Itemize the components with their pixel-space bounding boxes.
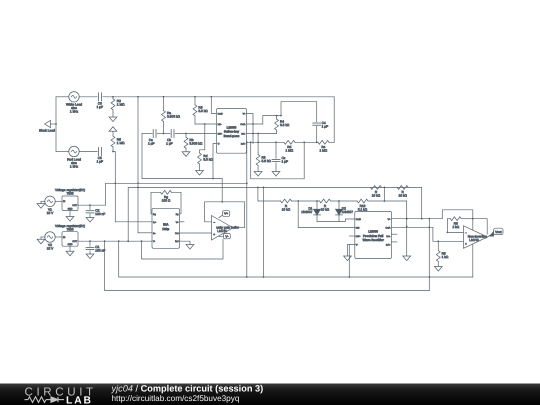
- junction riser on bus A end: [246, 182, 248, 184]
- wire row2 right end drop to ground: [406, 201, 408, 256]
- wire top bus y=96.8 from C6 to far right corner: [103, 96, 334, 98]
- svg-text:7805: 7805: [66, 227, 73, 231]
- svg-text:GND: GND: [68, 243, 73, 246]
- svg-text:1 MΩ: 1 MΩ: [319, 149, 327, 153]
- op-amp U6 LM358 Precision Full Wave Rectifier box: [355, 211, 392, 258]
- svg-text:10 kΩ: 10 kΩ: [372, 194, 381, 198]
- op-amp U2 INA 128p instrumentation amplifier box: [152, 208, 180, 248]
- wire white lead to C6: [56, 96, 69, 98]
- svg-text:100 nF: 100 nF: [95, 249, 105, 253]
- op-amp U7 Non-inverting LM741: [464, 226, 488, 249]
- wire buffer feedback loop: [205, 202, 245, 228]
- junction right column crossings: [406, 218, 408, 220]
- junction D1 tap: [316, 200, 318, 202]
- node Vout flag: [490, 228, 503, 236]
- junction V+ column crossings: [252, 123, 254, 125]
- svg-text:OUT: OUT: [72, 204, 77, 207]
- svg-text:2 kΩ: 2 kΩ: [452, 225, 459, 229]
- svg-text:InB-: InB-: [356, 227, 360, 230]
- svg-text:Vout: Vout: [495, 230, 501, 234]
- wire rectifier right pin3/pin4 stubs: [392, 233, 398, 235]
- svg-text:LM741: LM741: [217, 229, 227, 233]
- svg-text:128p: 128p: [162, 227, 169, 231]
- svg-text:1 kHz: 1 kHz: [70, 110, 79, 114]
- ground below R2: [109, 112, 117, 121]
- wire between caps: [157, 133, 170, 135]
- capacitor C2 100 nF: [86, 205, 105, 217]
- wire output to Vout flag: [488, 235, 494, 237]
- svg-text:100 Ω: 100 Ω: [162, 199, 171, 203]
- diode D1 1N4007: [301, 201, 320, 221]
- resistor Rc 1 MOhm (feedback): [318, 140, 329, 152]
- wire diode cathode loop to pin OutB: [317, 219, 355, 221]
- node Black Lead flag: [39, 120, 57, 132]
- wire feedback upper loop: [442, 210, 473, 219]
- wire rectifier V- drop to bus: [348, 245, 350, 278]
- resistor R6 2 kOhm feedback: [447, 217, 472, 229]
- junction OutA row crossings: [406, 218, 408, 220]
- wire bottom bus junction dots: [263, 276, 265, 278]
- ground left of V1: [37, 201, 45, 208]
- resistor R8 1 MOhm: [111, 136, 125, 152]
- svg-text:V+: V+: [224, 212, 228, 216]
- wire rectifier input row2 riser from bus C: [257, 187, 259, 201]
- wire left vertical joining sources: [55, 97, 57, 152]
- capacitor C1 100 nF: [86, 241, 105, 254]
- junction R9 tap on InA- row: [257, 133, 259, 135]
- svg-text:INA: INA: [163, 222, 169, 226]
- wire left pin V- to ground: [348, 245, 355, 257]
- svg-text:1 MΩ: 1 MΩ: [117, 103, 125, 107]
- diode D2 1N4007: [336, 201, 354, 221]
- svg-text:1 MΩ: 1 MΩ: [285, 149, 293, 153]
- svg-text:OutB: OutB: [218, 113, 224, 116]
- wire +5V(1) riser to bus A: [105, 183, 107, 205]
- svg-text:InA-: InA-: [241, 133, 245, 136]
- wire V- drop to outer bottom bus: [105, 241, 430, 290]
- voltage source V2 15 V: [45, 232, 55, 251]
- svg-text:V-: V-: [153, 240, 155, 243]
- svg-text:V-: V-: [218, 143, 220, 146]
- junction row2 tap to pin: [297, 200, 299, 202]
- ground below R5: [434, 267, 442, 272]
- junction Rb tap: [185, 133, 187, 135]
- svg-text:InA+: InA+: [386, 244, 391, 247]
- junction C4 bottom on row: [316, 141, 318, 143]
- svg-text:10 kΩ: 10 kΩ: [282, 207, 291, 211]
- ground below U4: [66, 246, 74, 256]
- svg-text:1 µF: 1 µF: [148, 141, 154, 145]
- ground left of V2: [37, 237, 45, 244]
- wire INA Out to buffer + input: [180, 232, 212, 234]
- flag V- on buffer bottom: [219, 233, 230, 238]
- source White Lead sine 1 kHz: [66, 92, 82, 114]
- resistor R4 3.3 kOhm: [275, 116, 290, 134]
- svg-text:InA+: InA+: [241, 143, 246, 146]
- resistor Rb 3.903 kOhm: [184, 134, 203, 152]
- capacitor Cb 1 uF: [166, 130, 174, 146]
- svg-text:1 MΩ: 1 MΩ: [117, 141, 125, 145]
- svg-text:3.903 kΩ: 3.903 kΩ: [167, 115, 180, 119]
- wire Ref pin to ground: [180, 241, 191, 244]
- wire output drop from OutA row: [473, 219, 487, 235]
- junction drop column crossings: [428, 226, 430, 228]
- svg-text:OutA: OutA: [385, 227, 391, 230]
- ground below Rb: [182, 152, 190, 157]
- wire band-pass input rail into caps: [142, 133, 152, 135]
- wire U4 OUT rail / V- row: [78, 240, 152, 242]
- ground rectifier left: [344, 256, 352, 261]
- svg-text:InA-: InA-: [386, 235, 390, 238]
- junction hanging-U left: [250, 141, 252, 143]
- wire inner loop to C4: [281, 102, 317, 122]
- wire R3 to pin InB-: [195, 123, 217, 125]
- voltage regulator U4 7805: [55, 224, 85, 246]
- wire red-lead signal drop to INA In+: [113, 152, 115, 222]
- wire InA+ / feedback row y=142.3: [247, 141, 335, 143]
- junction Rd tap on InB- row: [204, 123, 206, 125]
- svg-text:LM358: LM358: [368, 229, 378, 233]
- svg-text:−: −: [465, 231, 467, 235]
- svg-text:Black Lead: Black Lead: [39, 129, 55, 133]
- capacitor C6 1 uF: [97, 93, 103, 109]
- resistor R9 5.6 kOhm: [256, 134, 271, 172]
- resistor Rg 100 Ohm gain loop: [151, 190, 181, 213]
- svg-text:+: +: [465, 242, 467, 246]
- svg-text:InB-: InB-: [218, 123, 222, 126]
- junction V- row taps: [104, 240, 106, 242]
- svg-text:5.6 kΩ: 5.6 kΩ: [203, 158, 213, 162]
- wire band-pass V- pin drop to rail: [213, 144, 217, 179]
- svg-text:1N4007: 1N4007: [301, 210, 312, 214]
- svg-text:3.3 kΩ: 3.3 kΩ: [198, 109, 208, 113]
- svg-text:V-: V-: [225, 234, 228, 238]
- junction hanging-U right: [303, 141, 305, 143]
- wire bus A (+5V upper): [106, 182, 247, 184]
- flag V+ on buffer top: [219, 211, 230, 218]
- wire right drop column x=429.3: [428, 219, 430, 291]
- junction R9 column on row: [257, 141, 259, 143]
- resistor R13 5.1 kOhm: [357, 199, 368, 211]
- ground below Rd: [196, 171, 204, 176]
- wire drop bus C to lower bus at x=263.5: [263, 187, 265, 277]
- wire - input row from R6 left node: [447, 219, 463, 233]
- svg-text:OutB: OutB: [356, 218, 362, 221]
- svg-text:LAB: LAB: [66, 395, 93, 405]
- svg-text:Band-pass: Band-pass: [224, 134, 240, 138]
- svg-text:1 µF: 1 µF: [97, 160, 103, 164]
- svg-text:InB+: InB+: [356, 235, 361, 238]
- svg-text:Wave Rectifier: Wave Rectifier: [363, 238, 385, 242]
- svg-text:5.6 kΩ: 5.6 kΩ: [262, 159, 272, 163]
- wire link row1-row2: [383, 187, 385, 201]
- svg-text:−: −: [213, 220, 215, 224]
- svg-text:GND: GND: [68, 207, 73, 210]
- ground below C2: [86, 218, 94, 223]
- wire outer loop right vertical: [333, 97, 335, 143]
- svg-text:1N4007: 1N4007: [342, 210, 353, 214]
- wire V1 to regulator U3: [55, 200, 62, 202]
- svg-text:OutA: OutA: [240, 123, 246, 126]
- junction top bus / white drop: [137, 96, 139, 98]
- junction bus C crossings: [127, 240, 129, 242]
- svg-text:http://circuitlab.com/cs2f5buv: http://circuitlab.com/cs2f5buve3pyq: [112, 394, 240, 403]
- wire OutA pin jog to R4 top rail: [247, 116, 282, 124]
- junction buffer output tap from band-pass input riser: [221, 201, 223, 203]
- svg-text:1 µF: 1 µF: [322, 125, 328, 129]
- svg-text:OUT: OUT: [72, 240, 77, 243]
- svg-text:1 µF: 1 µF: [97, 105, 103, 109]
- wire V+ stub: [180, 221, 185, 223]
- ground below R9: [254, 172, 262, 177]
- junction R4 top: [276, 115, 278, 117]
- resistor R5 1 kOhm: [436, 240, 448, 266]
- source Red Lead sine 1 kHz: [67, 146, 81, 168]
- wire In- row into INA: [138, 232, 152, 234]
- wire top bus into OutB pin: [211, 97, 216, 114]
- ground rectifier right: [403, 256, 411, 261]
- ground below C1: [86, 254, 94, 259]
- resistor R3 3.3 kOhm: [193, 96, 208, 124]
- svg-text:5.1 kΩ: 5.1 kΩ: [358, 207, 368, 211]
- junction C1 tap: [89, 240, 91, 242]
- wire U3 OUT rail: [78, 204, 106, 206]
- svg-text:Precision Full: Precision Full: [363, 234, 383, 238]
- svg-text:1 µF: 1 µF: [166, 141, 172, 145]
- resistor R 10 kOhm (row2 mid): [320, 199, 331, 211]
- svg-text:7805: 7805: [66, 192, 73, 196]
- resistor Rd 5.6 kOhm: [198, 124, 214, 171]
- svg-text:1 kΩ: 1 kΩ: [442, 255, 449, 259]
- resistor Ra 3.903 kOhm: [162, 96, 181, 135]
- wire row2 tap down to pin InB-: [298, 201, 355, 228]
- wire In+ row into INA: [115, 221, 152, 223]
- capacitor C4 1 uF: [313, 121, 328, 142]
- wire red lead to C5: [56, 151, 69, 153]
- wire InA- pin row to R4 bottom: [247, 133, 277, 135]
- wire V+ pin stub and drop: [247, 114, 254, 144]
- wire rectifier OutA row to final amp: [392, 218, 443, 220]
- svg-text:V-: V-: [356, 244, 358, 247]
- svg-text:3.3 kΩ: 3.3 kΩ: [280, 123, 290, 127]
- svg-text:yjc04 / Complete circuit (sess: yjc04 / Complete circuit (session 3): [111, 384, 264, 394]
- capacitor Cz 1 uF: [272, 141, 288, 171]
- op-amp U5 unity gain buffer LM741: [212, 216, 240, 241]
- svg-text:LM741: LM741: [469, 238, 479, 242]
- svg-text:3.903 kΩ: 3.903 kΩ: [189, 142, 202, 146]
- op-amp U1 LM358 Sallen-key Band-pass box: [217, 109, 247, 154]
- ground below Cz: [272, 172, 280, 177]
- wire buffer output riser to band-pass caps: [142, 134, 222, 202]
- wire feedback right vertical to bus: [472, 219, 474, 277]
- svg-text:10 kΩ: 10 kΩ: [321, 207, 330, 211]
- svg-text:1 µF: 1 µF: [282, 159, 288, 163]
- svg-text:InB+: InB+: [218, 133, 223, 136]
- voltage regulator U3 7805: [55, 188, 85, 210]
- ground below U3: [66, 211, 74, 222]
- svg-text:+: +: [213, 232, 215, 236]
- svg-text:In-: In-: [153, 232, 156, 235]
- ground (pointing up) above R8: [109, 127, 117, 136]
- svg-text:Out: Out: [175, 232, 179, 235]
- capacitor Ca 1 uF: [148, 130, 156, 146]
- wire hanging U below feedback row: [251, 142, 305, 179]
- svg-text:1 kHz: 1 kHz: [70, 164, 79, 168]
- resistor R 10 kOhm (row1 left): [371, 186, 382, 198]
- wire bus C (+5V lower, to rectifier row): [128, 187, 422, 241]
- wire band-pass InA+ riser to bus A: [246, 142, 248, 277]
- svg-text:10 kΩ: 10 kΩ: [398, 194, 407, 198]
- wire V- drop to inner bottom bus: [119, 241, 473, 277]
- voltage source V1 15 V: [45, 196, 55, 215]
- junction R2 tap: [112, 96, 114, 98]
- svg-text:15 V: 15 V: [47, 247, 54, 251]
- junction bus A crossings: [114, 182, 116, 184]
- capacitor C5 1 uF: [97, 148, 103, 164]
- junction C2 tap: [89, 204, 91, 206]
- resistor Rd 1 MOhm (feedback): [284, 140, 295, 152]
- svg-text:Ref: Ref: [175, 240, 179, 243]
- wire caps to pin InB+: [175, 133, 216, 135]
- wire V- feed to buffer lower rail: [142, 240, 224, 260]
- resistor R 10 kOhm (row2 left): [281, 199, 292, 211]
- wire rectifier second pin row: [392, 226, 430, 228]
- junction D2 tap: [338, 200, 340, 202]
- ground below Ref: [186, 245, 194, 250]
- junction row1/row2 link: [384, 200, 386, 202]
- svg-text:100 nF: 100 nF: [95, 212, 105, 216]
- wire white-lead signal drop to INA In-: [137, 97, 139, 233]
- junction C5/R8 node: [112, 151, 114, 153]
- wire rectifier left pin3 stub: [350, 235, 355, 237]
- wire step from rectifier row2 to + input row: [429, 227, 463, 241]
- resistor R2 1 MOhm: [111, 97, 125, 112]
- wire V2 to regulator U4: [55, 236, 62, 238]
- svg-text:15 V: 15 V: [47, 211, 54, 215]
- wire rectifier row2: [258, 200, 407, 202]
- resistor R 10 kOhm (row1 right): [397, 186, 408, 198]
